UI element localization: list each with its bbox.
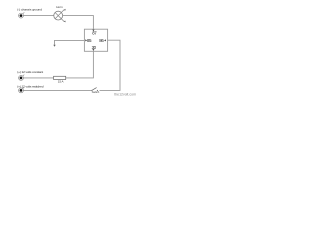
pin 85 arrow (85, 39, 87, 41)
wire pin 86 right and down (100, 40, 121, 90)
node B connector (19, 75, 25, 81)
svg-text:(-) chassis ground: (-) chassis ground (17, 7, 42, 11)
switch SW1 (91, 88, 98, 91)
fuse F1 (54, 76, 66, 79)
wire pin 30 down and left (66, 51, 94, 78)
ground arrow (53, 45, 55, 47)
wire fuse to node B (23, 77, 53, 79)
pin 86 arrow (104, 39, 106, 41)
node C connector (19, 87, 25, 93)
svg-text:15 A: 15 A (58, 80, 64, 84)
svg-text:Switch: Switch (92, 90, 100, 94)
svg-text:the12volt.com: the12volt.com (114, 93, 136, 97)
svg-text:Horn: Horn (56, 5, 63, 9)
wire horn to relay pin 87 (63, 16, 94, 30)
pin 87 arrow (92, 30, 94, 32)
relay box (84, 29, 107, 51)
wire A to horn (23, 15, 53, 17)
wire switch to node C (23, 89, 91, 91)
svg-text:(+) 12 volts constant: (+) 12 volts constant (17, 70, 43, 74)
wire pin 85 to ground (55, 40, 85, 45)
node A connector (19, 12, 25, 18)
pin 30 arrow (92, 49, 94, 51)
horn (lamp symbol) (54, 9, 66, 23)
